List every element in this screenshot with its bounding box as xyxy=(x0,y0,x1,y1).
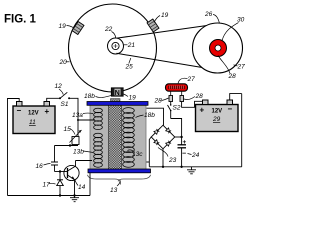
magnet 18b bottom with N pole xyxy=(112,88,124,97)
label 15 xyxy=(64,126,76,135)
body xyxy=(90,105,146,170)
capacitor 24 xyxy=(178,137,187,167)
label 14 xyxy=(75,180,86,191)
svg-text:S1: S1 xyxy=(61,101,69,108)
label 27 (commutator) xyxy=(178,76,195,83)
svg-text:−: − xyxy=(17,106,22,115)
svg-text:26: 26 xyxy=(204,11,213,18)
magnet 19 top-left xyxy=(72,21,84,34)
svg-text:23: 23 xyxy=(168,157,177,164)
node junction dot at bridge output xyxy=(180,136,182,138)
label 30 xyxy=(222,17,245,42)
flywheel rim xyxy=(69,4,157,92)
wire battery11 plus to S1 xyxy=(47,98,60,101)
brace under transformer xyxy=(88,175,151,185)
label 16 xyxy=(36,163,51,170)
svg-text:11: 11 xyxy=(29,119,36,126)
svg-text:FIG. 1: FIG. 1 xyxy=(4,14,37,26)
svg-text:14: 14 xyxy=(78,184,86,191)
label 13a xyxy=(72,112,93,119)
label 19 (bottom magnet) xyxy=(124,94,137,102)
switch S2 xyxy=(168,102,172,119)
label 20 xyxy=(59,59,70,66)
battery 29 xyxy=(196,100,239,132)
emitter wire to bus xyxy=(74,179,76,195)
coil 13c (right) xyxy=(123,108,135,168)
bridge rectifier 23 xyxy=(151,125,175,149)
commutator cylinder 27 (red) xyxy=(166,84,188,91)
brush 28 right xyxy=(180,92,184,102)
label 18b (left of bottom magnet) xyxy=(84,93,111,100)
svg-text:28: 28 xyxy=(228,73,237,80)
svg-text:25: 25 xyxy=(125,64,134,71)
svg-text:22: 22 xyxy=(104,26,113,33)
node: rheostat bottom junction xyxy=(69,144,71,146)
coil 13b (lower left) xyxy=(94,133,103,167)
svg-text:12: 12 xyxy=(55,83,63,90)
label 12 xyxy=(55,83,64,95)
label 26 xyxy=(204,11,220,24)
wire transformer top lead to bridge top xyxy=(147,108,164,125)
top plate (blue) xyxy=(87,102,148,106)
svg-text:+: + xyxy=(200,106,205,115)
svg-text:29: 29 xyxy=(212,116,221,123)
label 19 (top-right magnet) xyxy=(154,12,169,23)
capacitor 16 in base lead xyxy=(51,146,58,172)
wire battery29 minus to right rail xyxy=(230,94,242,100)
label 28 (left brush) xyxy=(154,98,169,105)
battery 11 xyxy=(13,102,55,134)
ground (left) xyxy=(70,196,79,202)
svg-text:16: 16 xyxy=(36,163,44,170)
svg-text:+: + xyxy=(45,107,50,116)
ground (right) xyxy=(187,167,196,174)
svg-text:−: − xyxy=(228,105,233,114)
junction dot bus/bridge xyxy=(162,166,164,168)
wire bridge right to node xyxy=(175,136,182,138)
svg-text:19: 19 xyxy=(59,23,67,30)
belt 25 lower run xyxy=(117,53,226,71)
label 13b xyxy=(73,149,93,156)
magnet 19 top-right xyxy=(147,19,159,32)
svg-text:20: 20 xyxy=(59,59,68,66)
label 24 xyxy=(188,152,200,159)
collector wire to transformer xyxy=(76,160,93,162)
label 21 xyxy=(124,42,135,49)
svg-text:N: N xyxy=(115,90,120,97)
bottom left bus xyxy=(8,195,91,197)
label 28 (right brush) xyxy=(184,93,203,100)
svg-text:19: 19 xyxy=(161,12,169,19)
core (hatched) xyxy=(109,105,122,170)
svg-text:15: 15 xyxy=(64,126,72,133)
wire down to rheostat 15 xyxy=(77,120,79,137)
rheostat 15 xyxy=(70,130,82,145)
svg-text:−: − xyxy=(182,151,186,158)
wire battery11 minus to left rail xyxy=(8,99,20,196)
brush 28 left xyxy=(169,92,173,102)
label 18b (right of transformer) xyxy=(136,112,156,119)
pulley hub 30 (red) xyxy=(210,40,227,57)
diode 17 xyxy=(57,172,64,196)
belt 25 upper run xyxy=(117,23,222,38)
wire transformer 13c bottom lead xyxy=(146,161,149,163)
right rail xyxy=(241,94,243,167)
wire bridge bottom to bus xyxy=(162,149,164,167)
bottom plate (blue) xyxy=(88,169,151,173)
hub 21 xyxy=(108,38,124,54)
bottom right bus xyxy=(149,166,241,168)
label 13c xyxy=(128,150,144,158)
svg-text:18b: 18b xyxy=(84,93,95,100)
label 23 xyxy=(158,148,177,165)
svg-text:13c: 13c xyxy=(132,151,143,158)
label 22 xyxy=(104,26,116,38)
transformer 13 assembly xyxy=(87,99,151,173)
svg-text:13b: 13b xyxy=(73,149,84,156)
label 28 (pulley shaft) xyxy=(218,56,236,81)
pulley 26 xyxy=(193,23,243,73)
node: emitter/bus junction xyxy=(73,194,75,196)
node: feedback tap junction xyxy=(77,119,79,121)
svg-text:27: 27 xyxy=(237,64,246,71)
label 27 (pulley rim) xyxy=(234,64,246,71)
svg-text:+: + xyxy=(183,139,187,146)
label 17 xyxy=(43,182,56,189)
coil 13a (upper left) xyxy=(94,108,103,129)
node: transistor base junction xyxy=(59,170,61,172)
wire right brush to battery 29 plus xyxy=(182,101,203,107)
transistor 14 xyxy=(64,161,79,181)
label 19 (top-left magnet) xyxy=(59,23,74,30)
wire transformer bottom to left bus xyxy=(89,173,91,196)
svg-text:28: 28 xyxy=(195,93,204,100)
core stub above top plate xyxy=(111,99,121,102)
svg-text:27: 27 xyxy=(187,76,196,83)
svg-text:S2: S2 xyxy=(173,105,181,112)
wire bridge left corner down to bus xyxy=(149,137,151,167)
svg-text:24: 24 xyxy=(191,152,200,159)
svg-text:13: 13 xyxy=(110,187,118,194)
svg-text:12V: 12V xyxy=(212,109,223,115)
wire rheostat bottom / node xyxy=(55,145,79,147)
label 13 xyxy=(110,181,121,195)
wire S1 to coil 13a top xyxy=(69,98,95,120)
base wire xyxy=(55,171,69,173)
junction dot bus/capacitor xyxy=(180,166,182,168)
switch S1 xyxy=(59,92,70,99)
wire left brush to junction xyxy=(171,119,182,138)
label 25 xyxy=(125,58,134,71)
node: diode/bus junction xyxy=(59,194,61,196)
svg-text:18b: 18b xyxy=(144,112,155,119)
svg-text:28: 28 xyxy=(154,98,163,105)
svg-text:12V: 12V xyxy=(28,111,39,117)
svg-text:21: 21 xyxy=(127,42,136,49)
svg-text:17: 17 xyxy=(43,182,51,189)
svg-text:19: 19 xyxy=(129,95,137,102)
